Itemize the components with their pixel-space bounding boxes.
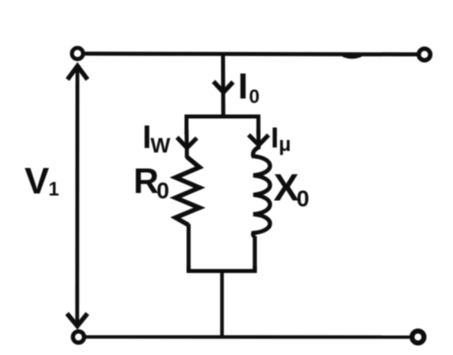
- inductor X0: [253, 148, 270, 237]
- svg-text:I: I: [238, 66, 248, 107]
- wire center drop from top bus: [221, 55, 225, 118]
- wire blemish on top wire: [343, 56, 361, 58]
- svg-text:0: 0: [297, 185, 310, 211]
- svg-text:μ: μ: [279, 134, 291, 156]
- arrowhead V1 top (up): [68, 66, 88, 80]
- wire top horizontal: [85, 52, 418, 57]
- wire center drop to bottom bus: [220, 272, 224, 338]
- terminal bottom-left: [73, 331, 84, 342]
- arrowhead Imu (down): [249, 135, 269, 145]
- wire bottom horizontal: [85, 335, 410, 339]
- arrowhead V1 bottom (down): [67, 314, 87, 327]
- svg-text:0: 0: [157, 177, 170, 203]
- terminal top-left: [72, 48, 83, 59]
- wire right branch upper: [256, 130, 260, 149]
- wire left branch upper: [185, 130, 189, 158]
- wire right branch lower: [253, 236, 257, 272]
- terminal top-right: [419, 49, 431, 61]
- node V1 measurement line: [75, 67, 79, 325]
- resistor R0: [176, 157, 200, 225]
- svg-text:R: R: [134, 162, 159, 201]
- wire shunt-box bottom bar: [189, 266, 255, 271]
- svg-text:I: I: [271, 123, 279, 155]
- svg-text:V: V: [25, 161, 50, 202]
- svg-text:0: 0: [249, 87, 260, 108]
- wire left branch lower: [187, 224, 191, 272]
- terminal bottom-right: [412, 331, 424, 343]
- svg-text:W: W: [151, 134, 171, 157]
- arrowhead I0 (down): [214, 82, 234, 93]
- wire shunt-box top bar: [187, 117, 259, 136]
- svg-text:1: 1: [49, 179, 60, 200]
- arrowhead IW (down): [177, 137, 197, 148]
